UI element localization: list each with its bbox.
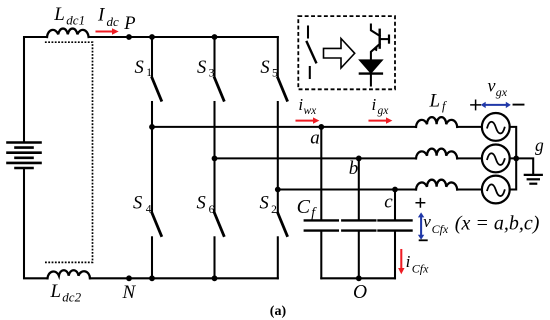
ac source phase a	[482, 113, 510, 141]
wire rail a	[152, 126, 416, 128]
node top rail / S1 leg	[149, 34, 155, 40]
label S6	[197, 193, 215, 216]
svg-text:5: 5	[272, 68, 278, 80]
wire capacitor bottom rail	[321, 277, 395, 279]
wire top rail Ldc1 to S5 leg	[89, 36, 278, 38]
svg-text:dc1: dc1	[66, 13, 85, 28]
svg-text:dc: dc	[107, 14, 120, 29]
label L_dc2	[50, 281, 82, 305]
current arrow i_gx	[370, 117, 393, 123]
voltage arrow v_gx	[481, 102, 511, 108]
node c	[392, 187, 398, 193]
voltage arrow v_Cfx	[418, 212, 424, 239]
capacitor Cf phase b	[342, 158, 375, 278]
label g	[535, 135, 544, 155]
ac source phase c	[482, 176, 510, 204]
svg-text:(a): (a)	[270, 304, 287, 319]
svg-text:S: S	[133, 193, 142, 213]
current arrow i_Cfx	[398, 250, 404, 274]
label i_Cfx	[406, 252, 430, 276]
wire bottom rail Ldc2 to S2 leg	[90, 277, 278, 279]
svg-text:4: 4	[146, 204, 152, 216]
ground	[525, 175, 542, 184]
label i_wx	[298, 95, 317, 117]
label (x = a,b,c)	[455, 213, 540, 235]
svg-text:N: N	[122, 282, 137, 303]
switch S2	[278, 190, 287, 279]
inductor Lf phase b	[416, 149, 457, 159]
wire rail b to source	[457, 157, 482, 159]
svg-text:3: 3	[209, 68, 215, 80]
caption (a)	[270, 304, 287, 319]
node bottom rail / S4 leg	[149, 275, 155, 281]
svg-text:Cfx: Cfx	[412, 262, 429, 276]
switch S3	[215, 37, 224, 158]
label S1	[135, 58, 153, 79]
current arrow i_wx	[297, 117, 320, 123]
inductor Lf phase c	[416, 180, 457, 190]
label c	[384, 191, 393, 212]
svg-text:L: L	[53, 4, 65, 25]
svg-text:dc2: dc2	[62, 290, 81, 305]
switch S4	[152, 127, 161, 278]
svg-text:i: i	[406, 252, 411, 271]
capacitor Cf phase a	[305, 127, 338, 278]
wire battery to bottom rail	[24, 169, 48, 278]
label - vgx	[514, 104, 524, 106]
svg-text:S: S	[260, 193, 269, 213]
svg-text:S: S	[197, 193, 206, 213]
node P	[126, 34, 132, 40]
svg-text:b: b	[349, 158, 359, 179]
svg-text:S: S	[260, 58, 269, 78]
label - vCfx	[420, 239, 427, 241]
wire rail a to source	[457, 126, 482, 128]
svg-text:c: c	[384, 191, 393, 212]
svg-text:2: 2	[271, 204, 277, 216]
label + vgx	[471, 100, 480, 109]
label S3	[197, 58, 215, 80]
battery Vdc	[8, 143, 41, 169]
label S5	[260, 58, 278, 80]
label v_Cfx	[423, 212, 449, 236]
node rail-c / S5 leg	[275, 187, 281, 193]
label S2	[260, 193, 278, 216]
svg-text:C: C	[297, 196, 311, 218]
node bottom rail / S6 leg	[212, 275, 218, 281]
svg-text:wx: wx	[304, 105, 318, 117]
label Lf	[429, 91, 448, 114]
label i_gx	[372, 95, 390, 117]
wire rail b	[215, 157, 417, 159]
label b	[349, 158, 359, 179]
label O	[353, 282, 367, 303]
switch S6	[215, 158, 224, 278]
svg-text:L: L	[429, 91, 441, 112]
inductor Lf phase a	[416, 117, 457, 127]
svg-text:O: O	[353, 282, 367, 303]
wire rail c	[278, 188, 416, 190]
label S4	[133, 193, 152, 215]
wire left vertical + top-left corner to Ldc1	[24, 37, 47, 141]
label Cf	[297, 196, 318, 221]
inductor Ldc2	[48, 270, 91, 278]
node b	[356, 156, 362, 162]
svg-text:v: v	[488, 75, 496, 95]
svg-text:gx: gx	[496, 85, 508, 99]
wire rail c to source	[457, 188, 482, 190]
svg-text:1: 1	[146, 67, 152, 79]
svg-text:S: S	[197, 58, 206, 78]
svg-text:6: 6	[209, 204, 215, 216]
svg-text:v: v	[423, 212, 431, 231]
wire source stubs and right bus	[510, 127, 517, 190]
inductor Ldc1	[47, 29, 89, 37]
node N	[126, 275, 132, 281]
svg-text:(x = a,b,c): (x = a,b,c)	[455, 213, 540, 235]
svg-text:P: P	[123, 14, 135, 34]
node top rail / S3 leg	[212, 34, 218, 40]
node right bus / ground tap	[513, 156, 519, 162]
svg-text:g: g	[535, 135, 544, 155]
svg-text:gx: gx	[378, 105, 390, 117]
inset block arrow	[324, 39, 355, 69]
label N	[122, 282, 137, 303]
switch S1	[152, 37, 161, 127]
svg-text:a: a	[310, 127, 320, 148]
node a	[318, 124, 324, 130]
wire to ground	[516, 158, 533, 174]
capacitor Cf phase c	[379, 190, 412, 279]
label L_dc1	[53, 4, 85, 28]
inset switch symbol	[307, 27, 316, 79]
label + vCfx	[416, 199, 424, 207]
svg-text:Cfx: Cfx	[432, 222, 449, 236]
dc-link dotted box	[45, 42, 93, 262]
inset IGBT Q	[371, 25, 389, 61]
node rail-b / S3 leg	[212, 156, 218, 162]
inset series diode D	[360, 60, 382, 85]
label P	[123, 14, 135, 34]
svg-text:i: i	[372, 95, 377, 114]
node O	[356, 275, 362, 281]
label a	[310, 127, 320, 148]
label I_dc	[97, 5, 119, 29]
current arrow I_dc	[97, 28, 119, 34]
node rail-a / S1 leg	[149, 124, 155, 130]
label v_gx	[488, 75, 508, 98]
svg-text:L: L	[50, 281, 62, 302]
svg-text:S: S	[135, 58, 144, 78]
ac source phase b	[482, 145, 510, 173]
switch S5	[278, 37, 287, 190]
inset dashed box	[298, 16, 395, 89]
